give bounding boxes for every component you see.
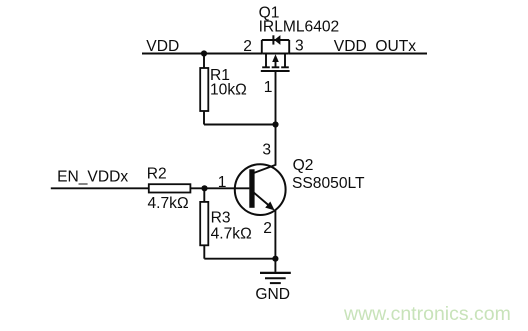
wire junction to R3 top (203, 188, 205, 202)
emitter arrowhead (265, 202, 274, 211)
svg-text:GND: GND (255, 286, 290, 303)
svg-text:Q2: Q2 (293, 157, 314, 174)
wire R2 right to Q2 base (190, 187, 249, 189)
source lead stub (265, 54, 267, 67)
wire VDD to Q1 pin 2 (142, 53, 262, 55)
bulk arrowhead (272, 54, 279, 62)
svg-text:4.7kΩ: 4.7kΩ (148, 195, 189, 212)
wire R1 to node G horizontal (204, 124, 276, 126)
pin number 3 of Q1 (295, 38, 304, 55)
body diode loop right vertical (288, 40, 290, 54)
svg-text:1: 1 (264, 79, 273, 96)
svg-text:1: 1 (218, 174, 227, 191)
wire Q2 emitter down to ground (274, 211, 276, 272)
wire R3 bottom to emitter node (204, 258, 275, 260)
channel dash middle (272, 66, 280, 68)
svg-text:R2: R2 (147, 166, 167, 183)
svg-text:4.7kΩ: 4.7kΩ (211, 226, 252, 243)
resistor R1 body (200, 68, 208, 111)
net label EN_VDDx (57, 169, 128, 186)
wire node G to Q2 collector (275, 125, 277, 166)
pin number 1 of Q2 (218, 174, 227, 191)
wire VDD rail to R1 top (203, 54, 205, 69)
gate plate (261, 70, 290, 72)
label IRLML6402 (259, 18, 340, 35)
svg-text:IRLML6402: IRLML6402 (259, 18, 340, 35)
label R1 (210, 67, 230, 84)
bulk arrow stem (275, 60, 277, 67)
svg-text:3: 3 (262, 141, 271, 158)
svg-text:SS8050LT: SS8050LT (292, 175, 365, 192)
transistor Q1 IRLML6402 P-channel MOSFET symbol (261, 35, 290, 71)
svg-text:2: 2 (263, 220, 272, 237)
body diode cathode bar (272, 35, 274, 44)
label Q2 (293, 157, 314, 174)
junction dot VDD / R1 (201, 50, 207, 56)
svg-text:VDD: VDD (146, 38, 179, 55)
wire Q1 gate lead down to node G (275, 71, 277, 125)
junction dot emitter / R3 / GND (272, 256, 278, 262)
ground symbol (260, 273, 291, 283)
drain lead stub (284, 54, 286, 67)
net label VDD (146, 38, 179, 55)
svg-text:R3: R3 (211, 209, 231, 226)
label SS8050LT (292, 175, 365, 192)
svg-text:VDD_OUTx: VDD_OUTx (334, 38, 417, 55)
label R2 (147, 166, 167, 183)
label 4.7k ohm of R3 (211, 226, 252, 243)
svg-text:3: 3 (295, 38, 304, 55)
emitter diagonal (254, 192, 273, 208)
pin number 1 of Q1 (264, 79, 273, 96)
transistor body circle (235, 164, 286, 215)
transistor Q2 SS8050LT NPN symbol (235, 164, 286, 215)
pin number 3 of Q2 (262, 141, 271, 158)
label Q1 (259, 5, 280, 22)
label 4.7k ohm of R2 (148, 195, 189, 212)
junction dot node G (272, 121, 278, 127)
channel dash left (262, 66, 270, 68)
rail through symbol between pin 2 and pin 3 (262, 53, 289, 55)
pin number 2 of Q1 (243, 38, 252, 55)
wire R3 bottom lead (203, 245, 205, 258)
label 10k ohm (210, 81, 247, 98)
net label VDD_OUTx (334, 38, 417, 55)
base bar (249, 169, 254, 208)
pin number 2 of Q2 (263, 220, 272, 237)
resistor R2 body (149, 184, 191, 192)
resistor R3 body (200, 202, 208, 245)
wire EN_VDDx to R2 left (51, 187, 149, 189)
label GND (255, 286, 290, 303)
body diode loop left vertical (261, 40, 263, 54)
svg-text:www.cntronics.com: www.cntronics.com (343, 303, 511, 325)
label R3 (211, 209, 231, 226)
wire R1 bottom lead (203, 111, 205, 125)
watermark www.cntronics.com (343, 303, 511, 325)
wire Q1 pin 3 to VDD_OUTx (289, 53, 427, 55)
svg-text:10kΩ: 10kΩ (210, 81, 247, 98)
collector diagonal (253, 165, 275, 173)
junction dot R2 / R3 node (201, 185, 207, 191)
svg-text:EN_VDDx: EN_VDDx (57, 169, 128, 186)
body diode triangle (274, 35, 280, 45)
channel dash right (281, 66, 289, 68)
svg-text:2: 2 (243, 38, 252, 55)
body diode loop top wire (262, 39, 289, 41)
